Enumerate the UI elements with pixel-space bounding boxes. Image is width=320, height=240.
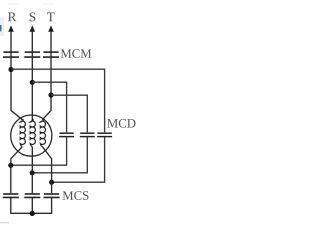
wire winding U bottom to node X	[11, 147, 22, 166]
arrow T (incoming supply)	[48, 25, 54, 51]
junction node Y (winding V bottom)	[30, 170, 35, 175]
junction node S tap	[30, 80, 35, 85]
label MCS	[63, 191, 89, 200]
contact MCM-S	[24, 52, 40, 57]
arrow S (incoming supply)	[30, 25, 36, 51]
contact MCM-T	[43, 52, 59, 57]
wire MCD-3 to winding W bottom	[52, 137, 105, 183]
contact MCM-R	[3, 52, 19, 57]
wire S down to motor	[31, 52, 33, 121]
wire node X down	[10, 165, 12, 193]
wire MCD-2 to winding V bottom	[32, 137, 87, 173]
contact MCS-3	[44, 194, 60, 197]
winding U coil	[20, 119, 25, 146]
contact MCD-1	[59, 133, 74, 136]
arrow R (incoming supply)	[8, 25, 14, 51]
motor M frame circle	[11, 115, 52, 156]
contact MCS-1	[3, 194, 19, 197]
phase label R	[8, 13, 16, 22]
wire T down to motor	[42, 52, 51, 120]
junction node Z (winding W bottom)	[49, 180, 54, 185]
junction node star point	[30, 211, 35, 216]
phase label S	[30, 12, 36, 21]
wire S tap to MCD-1	[32, 82, 66, 132]
bottom-left faint smudge	[0, 222, 9, 223]
wire R down to motor	[11, 52, 22, 120]
wire star-point bus	[11, 197, 52, 213]
label MCM	[61, 49, 92, 58]
winding W coil	[40, 119, 45, 146]
label MCD	[107, 119, 135, 128]
top edge faint smudges	[8, 3, 55, 5]
left-edge blue artifact	[0, 17, 4, 37]
junction node X (winding U bottom)	[8, 163, 13, 168]
junction node T tap	[48, 92, 53, 97]
contact MCS-2	[24, 194, 40, 197]
winding V coil	[30, 119, 35, 146]
wire winding W bottom to node Z	[42, 147, 51, 194]
phase label T	[47, 13, 55, 22]
wire R tap to MCD-3	[11, 69, 105, 132]
junction node R tap	[8, 67, 13, 72]
contact MCD-3	[97, 133, 112, 136]
wire MCD-1 to winding U bottom	[11, 137, 67, 166]
wire winding V bottom to node Y	[31, 147, 33, 194]
contact MCD-2	[80, 133, 95, 136]
wire T tap to MCD-2	[51, 95, 87, 132]
wire MCS-2 to bus	[31, 197, 33, 213]
